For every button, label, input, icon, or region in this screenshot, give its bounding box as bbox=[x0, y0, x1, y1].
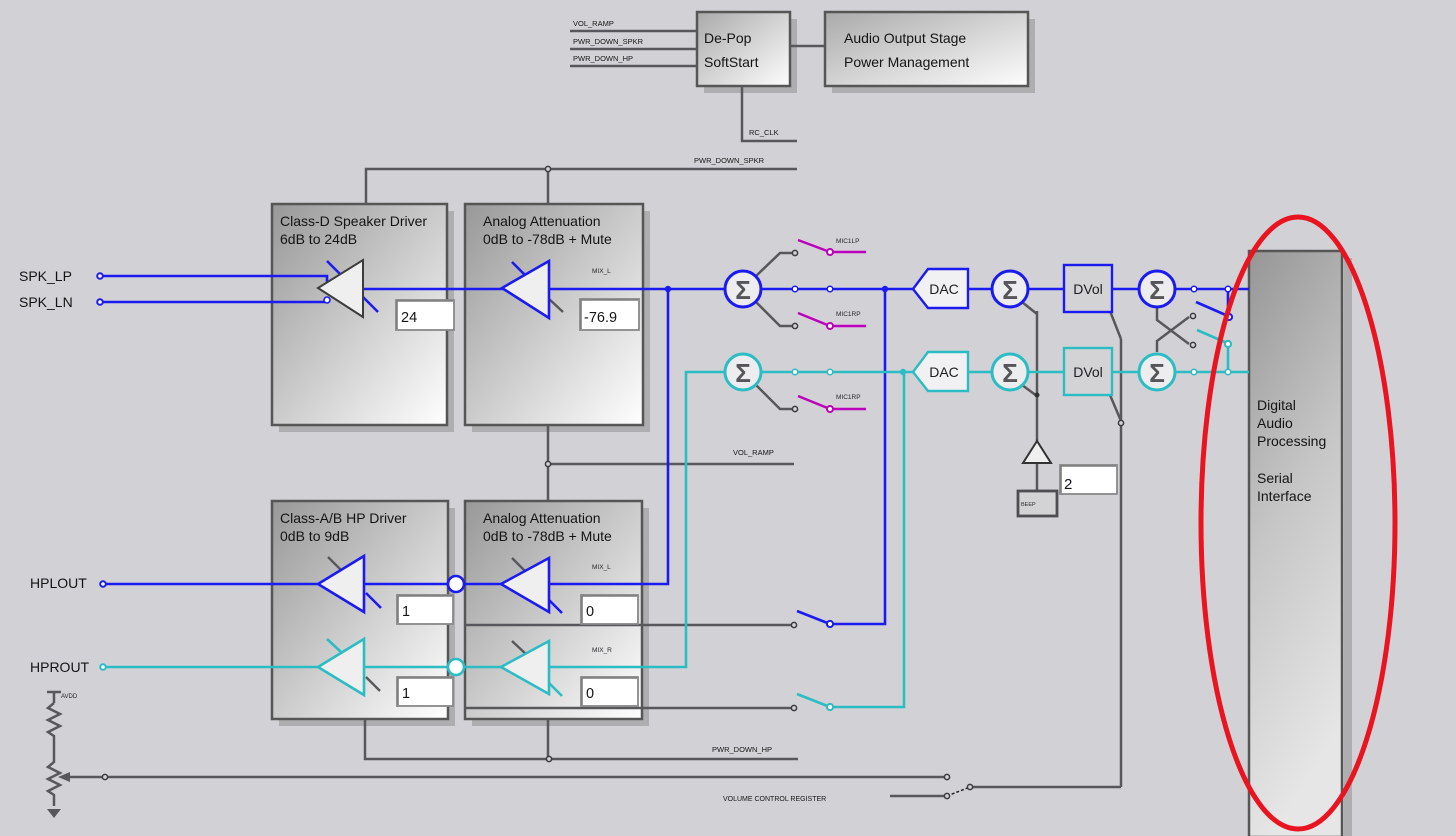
svg-text:DAC: DAC bbox=[929, 364, 959, 380]
svg-text:0: 0 bbox=[586, 604, 594, 620]
svg-text:0dB to 9dB: 0dB to 9dB bbox=[280, 528, 349, 544]
svg-text:-76.9: -76.9 bbox=[584, 310, 617, 326]
svg-text:Analog Attenuation: Analog Attenuation bbox=[483, 510, 601, 526]
svg-text:MIC1RP: MIC1RP bbox=[836, 311, 861, 318]
svg-text:0dB to -78dB + Mute: 0dB to -78dB + Mute bbox=[483, 528, 612, 544]
svg-text:PWR_DOWN_HP: PWR_DOWN_HP bbox=[712, 745, 772, 754]
svg-text:VOL_RAMP: VOL_RAMP bbox=[573, 19, 614, 28]
svg-text:PWR_DOWN_SPKR: PWR_DOWN_SPKR bbox=[573, 37, 644, 46]
svg-text:DVol: DVol bbox=[1073, 364, 1103, 380]
svg-text:Digital: Digital bbox=[1257, 397, 1296, 413]
svg-text:De-Pop: De-Pop bbox=[704, 30, 752, 46]
svg-text:Σ: Σ bbox=[735, 275, 751, 305]
svg-text:MIX_L: MIX_L bbox=[592, 564, 611, 571]
svg-text:2: 2 bbox=[1064, 476, 1072, 493]
svg-text:VOLUME CONTROL REGISTER: VOLUME CONTROL REGISTER bbox=[723, 796, 826, 803]
svg-text:24: 24 bbox=[401, 310, 417, 326]
svg-text:Interface: Interface bbox=[1257, 488, 1312, 504]
svg-text:Σ: Σ bbox=[1002, 275, 1018, 305]
svg-text:Processing: Processing bbox=[1257, 433, 1326, 449]
svg-text:Class-A/B HP Driver: Class-A/B HP Driver bbox=[280, 510, 407, 526]
svg-text:PWR_DOWN_SPKR: PWR_DOWN_SPKR bbox=[694, 156, 765, 165]
svg-text:0: 0 bbox=[586, 686, 594, 702]
svg-text:MIC1RP: MIC1RP bbox=[836, 394, 861, 401]
svg-text:DAC: DAC bbox=[929, 281, 959, 297]
svg-text:AVDD: AVDD bbox=[61, 694, 78, 700]
svg-text:0dB to -78dB + Mute: 0dB to -78dB + Mute bbox=[483, 231, 612, 247]
svg-text:6dB to 24dB: 6dB to 24dB bbox=[280, 231, 357, 247]
svg-text:BEEP: BEEP bbox=[1021, 502, 1036, 508]
svg-text:HPROUT: HPROUT bbox=[30, 659, 90, 675]
svg-text:1: 1 bbox=[402, 686, 410, 702]
svg-text:Audio Output Stage: Audio Output Stage bbox=[844, 30, 966, 46]
svg-text:Audio: Audio bbox=[1257, 415, 1293, 431]
svg-text:PWR_DOWN_HP: PWR_DOWN_HP bbox=[573, 54, 633, 63]
svg-text:Σ: Σ bbox=[1149, 358, 1165, 388]
svg-text:VOL_RAMP: VOL_RAMP bbox=[733, 448, 774, 457]
svg-text:Σ: Σ bbox=[1002, 358, 1018, 388]
svg-text:MIX_L: MIX_L bbox=[592, 268, 611, 275]
svg-text:Power Management: Power Management bbox=[844, 54, 969, 70]
svg-text:SoftStart: SoftStart bbox=[704, 54, 759, 70]
svg-text:Class-D Speaker Driver: Class-D Speaker Driver bbox=[280, 213, 427, 229]
svg-text:MIC1LP: MIC1LP bbox=[836, 238, 859, 245]
svg-text:MIX_R: MIX_R bbox=[592, 647, 612, 654]
svg-text:SPK_LP: SPK_LP bbox=[19, 268, 72, 284]
svg-text:RC_CLK: RC_CLK bbox=[749, 128, 779, 137]
svg-text:Σ: Σ bbox=[1149, 275, 1165, 305]
svg-text:Σ: Σ bbox=[735, 358, 751, 388]
svg-text:DVol: DVol bbox=[1073, 281, 1103, 297]
svg-text:HPLOUT: HPLOUT bbox=[30, 575, 87, 591]
svg-text:Analog Attenuation: Analog Attenuation bbox=[483, 213, 601, 229]
svg-text:SPK_LN: SPK_LN bbox=[19, 294, 73, 310]
svg-text:Serial: Serial bbox=[1257, 470, 1293, 486]
svg-text:1: 1 bbox=[402, 604, 410, 620]
